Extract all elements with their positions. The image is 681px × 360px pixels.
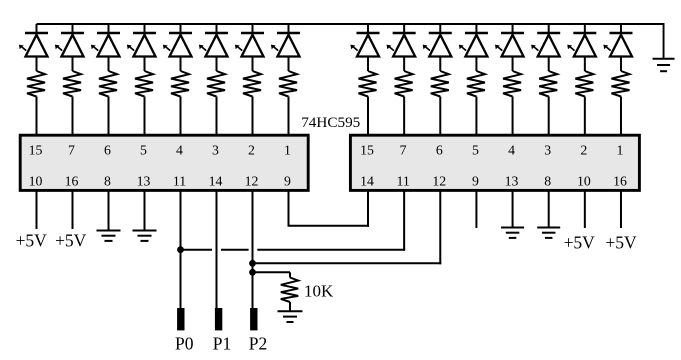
wire: LED1 anode to resistor 1 <box>36 57 38 72</box>
svg-text:3: 3 <box>212 143 219 158</box>
wire: resistor 16 to IC pin <box>620 97 622 136</box>
LED13 (right bank) <box>495 33 524 57</box>
wire: resistor 1 to IC pin <box>36 97 38 136</box>
wire: LED8 anode to resistor 8 <box>288 57 290 72</box>
wire: resistor 8 to IC pin <box>288 97 290 136</box>
wire: rail to LED14 cathode <box>548 24 550 33</box>
ground (U2 pin 8) <box>537 228 560 238</box>
ground (U1 pin 8) <box>97 231 121 241</box>
resistor 11 (LED11 current limit) <box>431 71 449 97</box>
svg-text:+5V: +5V <box>564 233 596 253</box>
LED16 (right bank) <box>603 33 632 57</box>
wire: shared net P0 horizontal (segment 2, hops P1) <box>221 249 249 251</box>
resistor 16 (LED16 current limit) <box>611 71 629 97</box>
wire: U1 pin 8 to ground <box>108 190 110 230</box>
svg-text:14: 14 <box>360 174 374 189</box>
resistor 5 (LED5 current limit) <box>171 71 189 97</box>
wire: LED15 anode to resistor 15 <box>584 57 586 72</box>
wire: U2 pin 16 to +5V <box>620 190 622 228</box>
wire: cascade horizontal U1 pin 9 to U2 pin 14 <box>288 225 370 227</box>
svg-text:P0: P0 <box>175 334 194 354</box>
wire: rail to LED5 cathode <box>180 24 182 33</box>
connector pin P2 <box>250 308 257 330</box>
wire: LED2 anode to resistor 2 <box>72 57 74 72</box>
wire: P2 branch to pull resistor <box>253 271 291 273</box>
wire: LED3 anode to resistor 3 <box>108 57 110 72</box>
svg-text:+5V: +5V <box>55 231 87 251</box>
LED15 (right bank) <box>567 33 596 57</box>
resistor 13 (LED13 current limit) <box>503 71 521 97</box>
resistor 10K pull-down <box>281 278 298 303</box>
wire: U2 pin 10 to +5V <box>584 190 586 228</box>
wire: LED7 anode to resistor 7 <box>252 57 254 72</box>
resistor 12 (LED12 current limit) <box>467 71 485 97</box>
wire: LED13 anode to resistor 13 <box>512 57 514 72</box>
wire: LED6 anode to resistor 6 <box>216 57 218 72</box>
wire: rail to LED12 cathode <box>475 24 477 33</box>
wire: LED12 anode to resistor 12 <box>475 57 477 72</box>
wire: U2 pin 9 stub <box>475 190 477 228</box>
LED11 (right bank) <box>423 33 452 57</box>
svg-text:5: 5 <box>472 143 479 158</box>
resistor 1 (LED1 current limit) <box>27 71 45 97</box>
wire: rail to LED10 cathode <box>403 24 405 33</box>
wire: U2 pin 12 down to shared net <box>439 190 441 264</box>
ground (U2 pin 13) <box>501 228 524 238</box>
IC U2 74HC595 (right shift register) body <box>350 135 639 190</box>
wire: rail to LED7 cathode <box>252 24 254 33</box>
LED10 (right bank) <box>387 33 416 57</box>
connector pin P0 <box>177 308 184 330</box>
wire: rail drop to top-right ground <box>663 24 665 59</box>
wire: resistor 6 to IC pin <box>216 97 218 136</box>
LED7 (left bank) <box>235 33 264 57</box>
wire: rail to LED9 cathode <box>367 24 369 33</box>
svg-text:5: 5 <box>140 143 147 158</box>
wire: rail to LED13 cathode <box>512 24 514 33</box>
wire: rail to LED2 cathode <box>72 24 74 33</box>
svg-text:9: 9 <box>472 174 479 189</box>
svg-text:16: 16 <box>613 174 627 189</box>
ground (top right) <box>653 59 675 71</box>
wire: resistor 10 to IC pin <box>403 97 405 136</box>
svg-text:13: 13 <box>137 174 151 189</box>
wire: rail to LED3 cathode <box>108 24 110 33</box>
wire: resistor 7 to IC pin <box>252 97 254 136</box>
wire: rail to LED8 cathode <box>288 24 290 33</box>
svg-text:P2: P2 <box>249 334 267 354</box>
wire: LED5 anode to resistor 5 <box>180 57 182 72</box>
wire: 10K to ground <box>289 302 291 311</box>
svg-text:1: 1 <box>284 143 291 158</box>
wire: resistor 15 to IC pin <box>584 97 586 136</box>
svg-text:15: 15 <box>360 143 374 158</box>
wire: shared net P0 horizontal (segment 1) <box>181 249 213 251</box>
wire: U1 pin 11 to P0 connector <box>180 190 182 308</box>
svg-text:8: 8 <box>544 174 551 189</box>
wire: rail to LED4 cathode <box>144 24 146 33</box>
wire: U1 pin 10 to +5V <box>36 190 38 229</box>
wire: pull resistor top lead <box>289 272 291 277</box>
wire: resistor 4 to IC pin <box>144 97 146 136</box>
wire: U2 pin 8 to ground <box>548 190 550 227</box>
wire: resistor 13 to IC pin <box>512 97 514 136</box>
svg-text:7: 7 <box>400 143 407 158</box>
wire: resistor 11 to IC pin <box>439 97 441 136</box>
node: junction P0 net <box>177 246 184 253</box>
wire: resistor 5 to IC pin <box>180 97 182 136</box>
resistor 7 (LED7 current limit) <box>243 71 261 97</box>
wire: resistor 14 to IC pin <box>548 97 550 136</box>
resistor 15 (LED15 current limit) <box>575 71 593 97</box>
LED8 (left bank) <box>271 33 300 57</box>
LED6 (left bank) <box>199 33 228 57</box>
svg-text:11: 11 <box>396 174 409 189</box>
wire: LED16 anode to resistor 16 <box>620 57 622 72</box>
IC U1 74HC595 (left shift register) body <box>20 135 308 190</box>
wire: U1 pin 16 to +5V <box>72 190 74 229</box>
resistor 14 (LED14 current limit) <box>539 71 557 97</box>
resistor 2 (LED2 current limit) <box>63 71 81 97</box>
svg-text:+5V: +5V <box>16 231 48 251</box>
wire: rail to LED15 cathode <box>584 24 586 33</box>
wire: LED10 anode to resistor 10 <box>403 57 405 72</box>
LED5 (left bank) <box>163 33 192 57</box>
svg-text:4: 4 <box>508 143 515 158</box>
svg-text:3: 3 <box>544 143 551 158</box>
wire: top common rail <box>37 23 665 25</box>
wire: resistor 9 to IC pin <box>367 97 369 136</box>
LED1 (left bank) <box>19 33 48 57</box>
svg-text:6: 6 <box>436 143 443 158</box>
wire: resistor 3 to IC pin <box>108 97 110 136</box>
wire: LED9 anode to resistor 9 <box>367 57 369 72</box>
wire: U2 pin 13 to ground <box>512 190 514 227</box>
wire: rail to LED16 cathode <box>620 24 622 33</box>
svg-text:10: 10 <box>577 174 591 189</box>
svg-text:10K: 10K <box>304 281 334 300</box>
svg-text:14: 14 <box>209 174 223 189</box>
svg-text:7: 7 <box>68 143 75 158</box>
svg-text:4: 4 <box>176 143 183 158</box>
wire: rail to LED6 cathode <box>216 24 218 33</box>
svg-text:10: 10 <box>29 174 43 189</box>
resistor 9 (LED9 current limit) <box>359 71 377 97</box>
wire: U2 pin 14 down to cascade <box>367 190 369 226</box>
wire: resistor 2 to IC pin <box>72 97 74 136</box>
resistor 3 (LED3 current limit) <box>99 71 117 97</box>
svg-text:11: 11 <box>173 174 186 189</box>
svg-text:2: 2 <box>248 143 255 158</box>
node: junction P2 net upper <box>249 260 256 267</box>
wire: U1 pin 12 to P2 connector <box>252 190 254 308</box>
wire: LED4 anode to resistor 4 <box>144 57 146 72</box>
wire: resistor 12 to IC pin <box>475 97 477 136</box>
LED2 (left bank) <box>55 33 84 57</box>
LED4 (left bank) <box>127 33 156 57</box>
wire: shared net P0 horizontal (segment 3, hops P2) <box>257 249 405 251</box>
LED12 (right bank) <box>459 33 488 57</box>
svg-text:13: 13 <box>505 174 519 189</box>
svg-text:2: 2 <box>580 143 587 158</box>
resistor 10 (LED10 current limit) <box>395 71 413 97</box>
svg-text:9: 9 <box>284 174 291 189</box>
svg-text:12: 12 <box>432 174 446 189</box>
ground (below 10K) <box>278 311 303 322</box>
LED14 (right bank) <box>531 33 560 57</box>
resistor 8 (LED8 current limit) <box>279 71 297 97</box>
svg-text:16: 16 <box>65 174 79 189</box>
wire: U1 pin 9 down (serial cascade) <box>288 190 290 225</box>
connector pin P1 <box>215 308 222 330</box>
wire: LED14 anode to resistor 14 <box>548 57 550 72</box>
svg-text:1: 1 <box>617 143 624 158</box>
wire: rail to LED11 cathode <box>439 24 441 33</box>
wire: LED11 anode to resistor 11 <box>439 57 441 72</box>
resistor 4 (LED4 current limit) <box>135 71 153 97</box>
ground (U1 pin 13) <box>133 231 157 241</box>
svg-text:+5V: +5V <box>605 233 637 253</box>
svg-text:15: 15 <box>29 143 43 158</box>
svg-text:P1: P1 <box>213 334 231 354</box>
svg-text:8: 8 <box>104 174 111 189</box>
svg-text:74HC595: 74HC595 <box>301 114 360 131</box>
LED9 (right bank) <box>350 33 379 57</box>
wire: rail to LED1 cathode <box>36 24 38 33</box>
svg-text:6: 6 <box>104 143 111 158</box>
LED3 (left bank) <box>91 33 120 57</box>
resistor 6 (LED6 current limit) <box>207 71 225 97</box>
wire: U1 pin 14 to P1 connector <box>216 190 218 308</box>
wire: shared net P2 horizontal to U2 pin 12 <box>253 262 442 264</box>
node: junction P2 net lower <box>249 269 256 276</box>
wire: U2 pin 11 down to shared net <box>403 190 405 250</box>
svg-text:12: 12 <box>245 174 259 189</box>
wire: U1 pin 13 to ground <box>144 190 146 230</box>
